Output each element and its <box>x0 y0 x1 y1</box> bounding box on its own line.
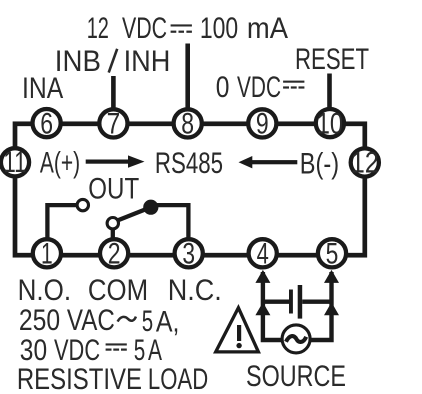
svg-text:8: 8 <box>181 107 194 140</box>
svg-text:OUT: OUT <box>88 172 139 205</box>
svg-text:VDC: VDC <box>122 12 167 45</box>
svg-text:RESISTIVE: RESISTIVE <box>17 363 142 394</box>
svg-text:mA: mA <box>247 12 288 45</box>
svg-text:250: 250 <box>19 304 60 337</box>
svg-text:9: 9 <box>256 107 269 140</box>
svg-text:VAC: VAC <box>67 304 115 337</box>
svg-text:3: 3 <box>182 237 195 270</box>
svg-text:N.C.: N.C. <box>168 274 222 307</box>
svg-text:12: 12 <box>351 147 379 180</box>
svg-text:LOAD: LOAD <box>148 363 208 394</box>
svg-text:1: 1 <box>41 237 53 270</box>
svg-text:10: 10 <box>317 108 343 141</box>
svg-text:5: 5 <box>326 237 339 270</box>
svg-text:2: 2 <box>108 237 121 270</box>
svg-text:INA: INA <box>22 72 63 105</box>
svg-text:12: 12 <box>87 12 109 45</box>
svg-text:100: 100 <box>200 12 238 45</box>
svg-text:RS485: RS485 <box>155 147 223 180</box>
svg-text:SOURCE: SOURCE <box>246 360 346 393</box>
svg-text:RESET: RESET <box>295 43 369 76</box>
svg-text:INH: INH <box>124 45 171 78</box>
svg-text:B(-): B(-) <box>300 148 339 181</box>
svg-text:0: 0 <box>216 71 230 104</box>
svg-text:COM: COM <box>88 274 148 307</box>
svg-text:VDC: VDC <box>237 71 281 104</box>
svg-text:4: 4 <box>257 237 269 270</box>
svg-text:7: 7 <box>107 107 121 140</box>
svg-text:6: 6 <box>40 108 53 141</box>
svg-text:N.O.: N.O. <box>18 274 72 307</box>
svg-text:A(+): A(+) <box>40 147 80 180</box>
svg-text:11: 11 <box>3 146 26 179</box>
